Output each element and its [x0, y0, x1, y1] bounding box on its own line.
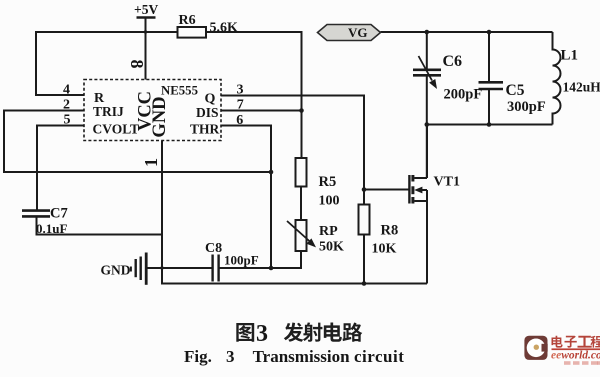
svg-text:200pF: 200pF	[444, 87, 483, 103]
svg-text:142uH: 142uH	[563, 80, 600, 95]
svg-text:C6: C6	[443, 53, 463, 70]
svg-text:THR: THR	[190, 122, 220, 137]
svg-text:C5: C5	[506, 82, 525, 99]
svg-text:CVOLT: CVOLT	[93, 122, 140, 137]
svg-text:VG: VG	[348, 25, 368, 40]
svg-text:GND: GND	[150, 96, 170, 137]
svg-text:R5: R5	[319, 174, 337, 190]
svg-text:NE555: NE555	[161, 84, 198, 98]
svg-text:DIS: DIS	[196, 105, 219, 120]
svg-text:50K: 50K	[319, 240, 344, 255]
svg-text:2: 2	[63, 98, 70, 113]
svg-text:L1: L1	[561, 48, 579, 64]
svg-text:C7: C7	[50, 206, 68, 222]
svg-text:6: 6	[236, 113, 243, 128]
svg-text:3: 3	[256, 321, 268, 347]
svg-text:300pF: 300pF	[507, 99, 546, 115]
svg-text:1: 1	[141, 158, 161, 167]
svg-text:10K: 10K	[372, 242, 397, 257]
svg-text:R6: R6	[179, 13, 196, 28]
svg-text:5: 5	[64, 113, 71, 128]
svg-text:4: 4	[63, 83, 70, 98]
svg-text:0.1uF: 0.1uF	[36, 221, 67, 236]
svg-text:GND: GND	[101, 263, 131, 278]
svg-text:100pF: 100pF	[224, 253, 259, 268]
svg-text:VT1: VT1	[434, 175, 460, 190]
svg-text:RP: RP	[319, 224, 338, 239]
svg-text:7: 7	[237, 98, 244, 113]
svg-text:8: 8	[127, 60, 147, 69]
svg-text:eeworld.co: eeworld.co	[551, 350, 600, 362]
svg-text:R8: R8	[381, 223, 399, 239]
svg-text:5.6K: 5.6K	[210, 21, 239, 36]
svg-text:TRIJ: TRIJ	[93, 104, 124, 119]
svg-text:100: 100	[319, 193, 340, 208]
svg-text:Fig.3Transmissioncircuit: Fig.3Transmissioncircuit	[184, 347, 404, 366]
svg-text:+5V: +5V	[134, 2, 158, 17]
svg-text:C8: C8	[205, 241, 222, 256]
svg-text:3: 3	[237, 83, 244, 98]
